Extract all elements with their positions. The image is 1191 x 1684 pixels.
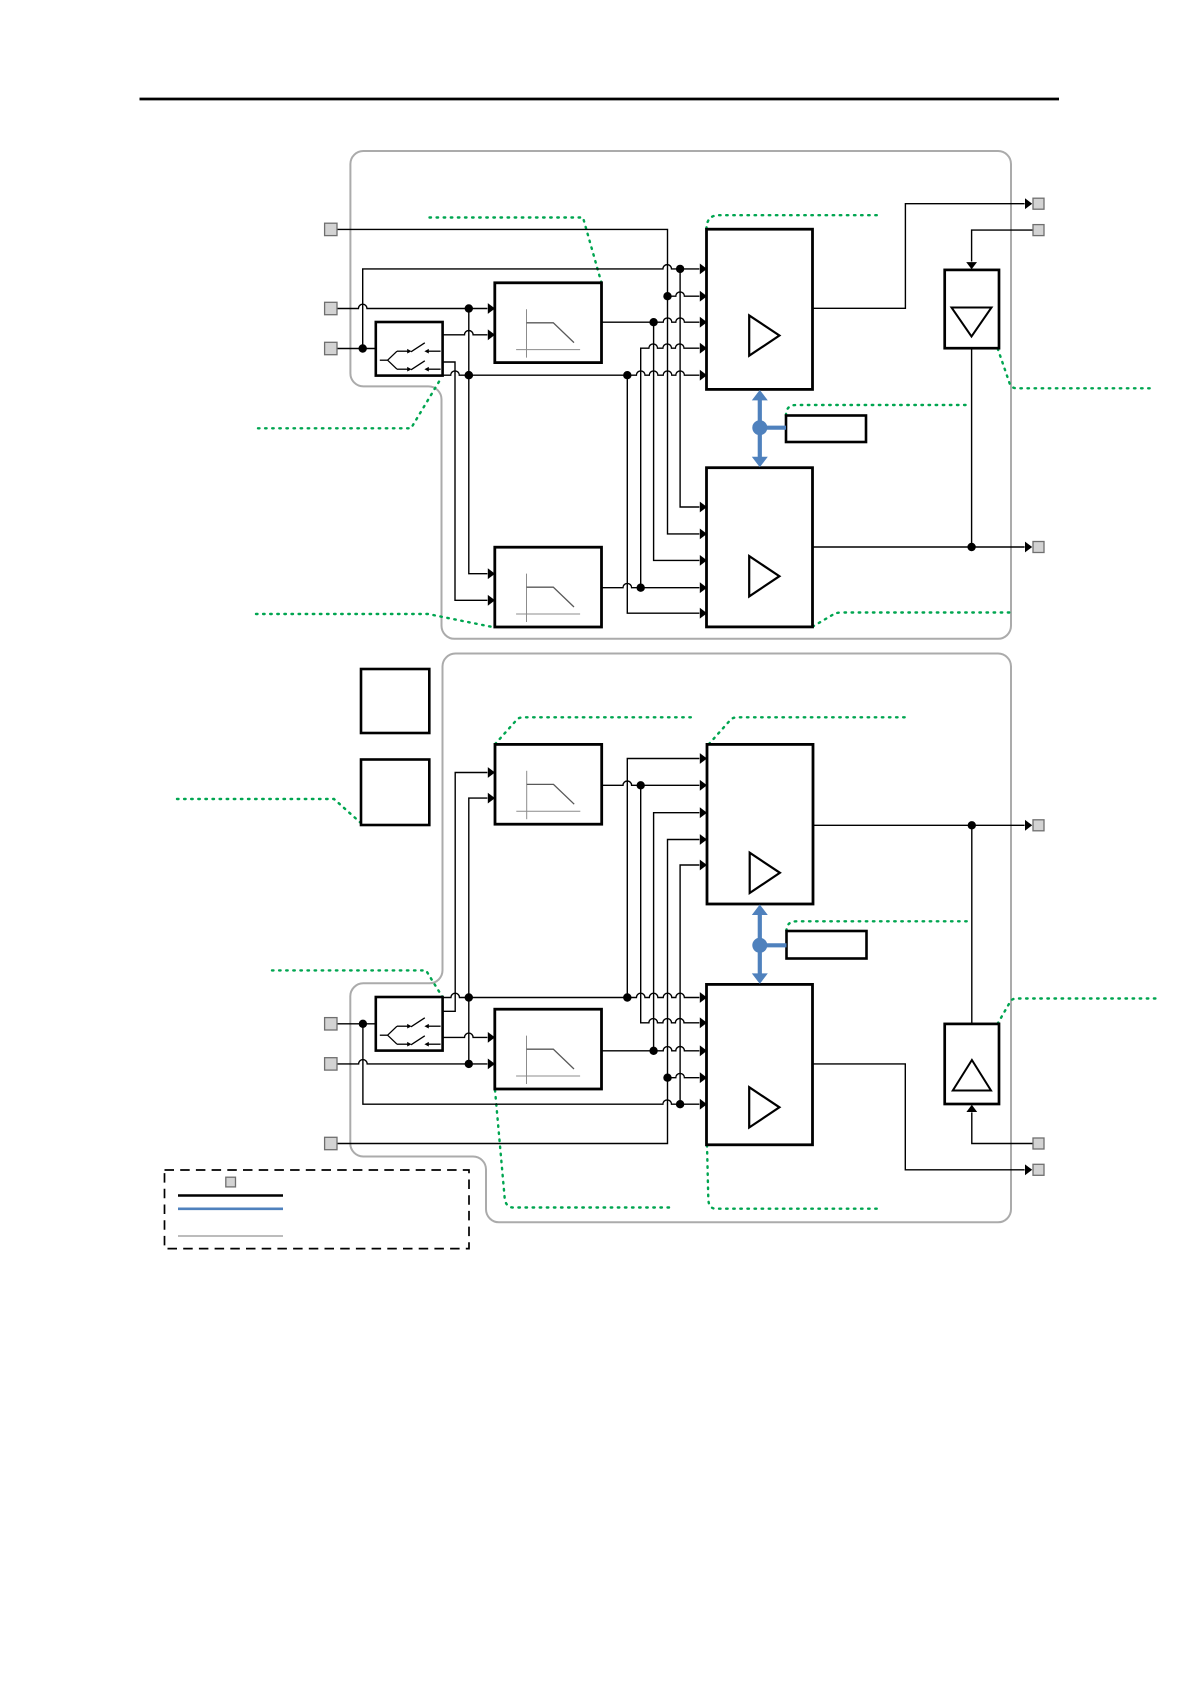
callout to attenuator A1 <box>998 349 1154 389</box>
wire net IN5 to LPF4 <box>337 1059 495 1070</box>
junction LPF1 out <box>649 318 657 326</box>
wire LPF1 out down to U2 <box>654 322 707 566</box>
callout to filter LPF3 <box>495 717 694 744</box>
port OUT3 <box>1033 820 1044 831</box>
wire net IN3 to S1 <box>337 348 377 350</box>
legend port symbol <box>226 1177 236 1187</box>
control bus arrow 2 <box>752 905 787 984</box>
wire net IN6 trunk <box>337 834 707 1143</box>
port SENSE1 <box>1033 225 1044 236</box>
callout to filter LPF1 <box>430 218 602 284</box>
low-pass filter LPF2 <box>495 547 602 627</box>
wire net IN4 to S2 <box>337 1023 377 1025</box>
callout to filter LPF4 <box>495 1090 672 1208</box>
wire mix bus W5 <box>443 370 708 381</box>
wire mix bus W6 <box>443 992 707 1003</box>
callout to filter LPF2 <box>256 614 494 627</box>
junction W6 a <box>623 993 631 1001</box>
junction LPF4 out <box>649 1047 657 1055</box>
mixer amp U3 <box>707 744 813 904</box>
junction net IN5 b <box>465 993 473 1001</box>
junction net IN3 a <box>359 344 367 352</box>
wire LPF4 out up to U3 <box>654 807 707 1051</box>
junction net IN4 a <box>359 1020 367 1028</box>
codec block 2 container <box>350 654 1011 1223</box>
callout to mixer amp U1 <box>707 215 881 229</box>
wire U1 output to OUT1 <box>813 198 1033 308</box>
legend container line <box>178 1235 283 1237</box>
callout to input switch S2 <box>272 970 442 996</box>
junction W5 a <box>465 371 473 379</box>
junction net IN2 b <box>465 371 473 379</box>
port IN6 <box>325 1137 337 1149</box>
junction LPF2 out <box>637 584 645 592</box>
wire A1 bottom join <box>971 348 973 547</box>
wire W5 down to U2 <box>627 375 707 618</box>
wire net IN3 up branch <box>363 264 707 349</box>
junction A1 join <box>967 543 975 551</box>
callout to mixer amp U4 <box>707 1145 881 1209</box>
wire LPF1 output <box>602 317 708 328</box>
wire S2 out2 to LPF3 <box>443 767 495 1011</box>
wire LPF3 out down to U4 <box>641 785 707 1028</box>
low-pass filter LPF4 <box>495 1009 602 1089</box>
booster A2 <box>945 1024 999 1104</box>
wire net IN2 branch to LPF2 <box>469 309 495 580</box>
wire net IN1 branch to U1 <box>668 291 708 302</box>
attenuator A1 <box>945 270 999 348</box>
wire LPF2 out up to U1 <box>641 343 707 588</box>
wire LPF3 output <box>602 780 707 791</box>
legend control line <box>178 1208 283 1211</box>
wire net IN1 trunk <box>337 229 707 539</box>
wire LPF4 output <box>602 1045 707 1056</box>
callout to mixer amp U2 <box>813 613 1011 627</box>
callout to control box L2 <box>787 921 969 931</box>
square block J2 <box>361 760 429 826</box>
legend box <box>165 1170 470 1249</box>
port IN5 <box>325 1058 337 1070</box>
header rule <box>140 98 1060 101</box>
low-pass filter LPF3 <box>495 744 602 824</box>
mixer amp U2 <box>707 468 813 627</box>
callout to square J2 <box>177 799 363 825</box>
wire S1 out1 to LPF1 <box>443 329 496 340</box>
wire net IN3 down to U2 <box>680 269 707 513</box>
port IN3 <box>325 342 337 354</box>
control box L2 <box>787 931 867 959</box>
junction net IN1 <box>663 292 671 300</box>
junction U3 out <box>968 821 976 829</box>
port SENSE2 <box>1033 1138 1044 1149</box>
port IN1 <box>325 223 337 235</box>
junction W5 b <box>623 371 631 379</box>
wire W6 up to U3 <box>627 753 707 997</box>
wire SENSE1 into A1 <box>966 230 1033 269</box>
port IN2 <box>325 302 337 314</box>
control box L1 <box>786 416 866 443</box>
junction net IN3 b <box>676 265 684 273</box>
legend analog line <box>178 1194 283 1197</box>
junction net IN4 b <box>676 1100 684 1108</box>
codec block 1 container <box>350 151 1011 639</box>
junction LPF3 out <box>637 781 645 789</box>
mixer amp U1 <box>707 229 813 389</box>
callout to booster A2 <box>998 999 1157 1024</box>
callout to mixer amp U3 <box>709 717 908 744</box>
wire LPF2 output <box>602 582 708 593</box>
callout to input switch S1 <box>258 378 442 429</box>
junction net IN6 <box>663 1074 671 1082</box>
input switch S1 <box>376 322 443 376</box>
port OUT2 <box>1033 542 1044 553</box>
wire S2 out1 to LPF4 <box>443 1032 495 1043</box>
input switch S2 <box>376 997 443 1051</box>
wire U2 output to OUT2 <box>813 542 1033 553</box>
wire net IN6 branch to U4 <box>668 1072 708 1083</box>
mixer amp U4 <box>707 984 813 1144</box>
wire SENSE2 into A2 <box>966 1105 1033 1144</box>
wire net IN4 down branch <box>363 1024 707 1110</box>
wire S1 out2 to LPF2 <box>443 362 496 606</box>
wire U4 output to OUT4 <box>813 1064 1033 1175</box>
junction net IN2 a <box>465 304 473 312</box>
port IN4 <box>325 1018 337 1030</box>
wire net IN5 up branch <box>469 793 495 1064</box>
wire net IN2 to LPF1 <box>337 303 495 314</box>
square block J1 <box>361 669 429 733</box>
callout to control box L1 <box>786 405 967 416</box>
junction net IN5 a <box>465 1060 473 1068</box>
wire A2 top join <box>971 825 973 1023</box>
wire U3 output to OUT3 <box>813 820 1032 831</box>
port OUT1 <box>1033 198 1044 209</box>
low-pass filter LPF1 <box>495 283 602 363</box>
control bus arrow 1 <box>752 390 786 467</box>
wire IN4 up to U3 <box>680 860 707 1105</box>
port OUT4 <box>1033 1164 1044 1175</box>
